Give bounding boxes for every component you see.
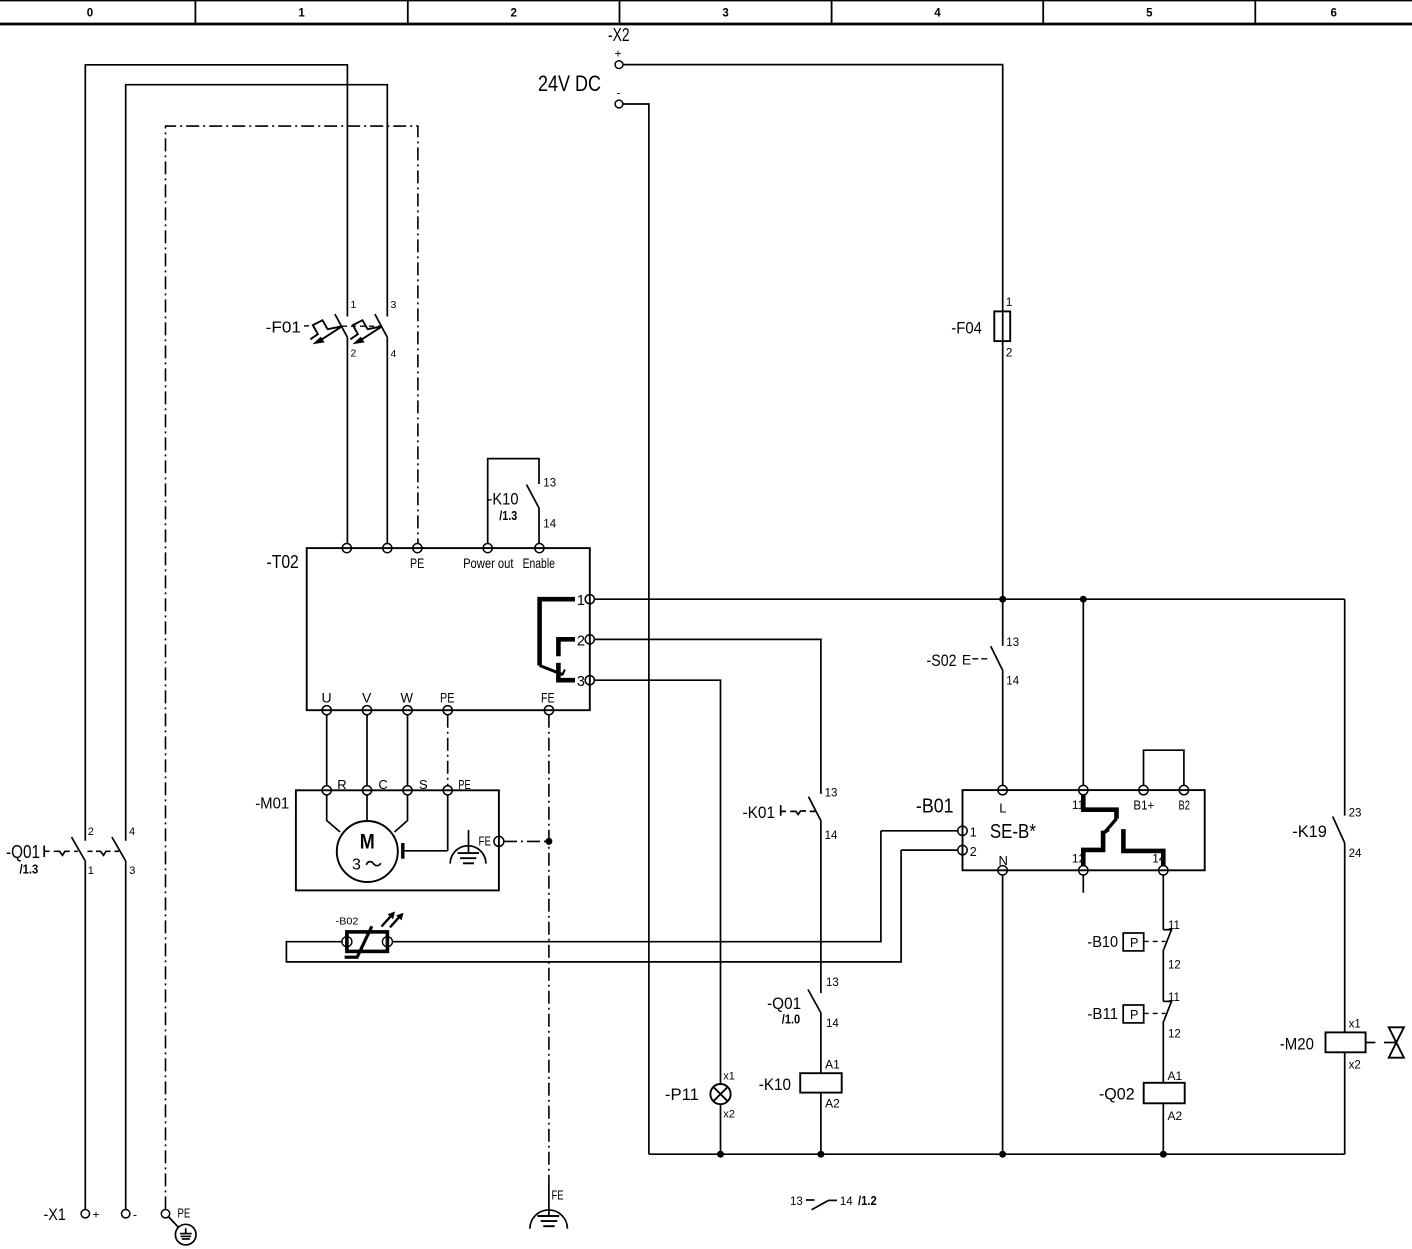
svg-text:11: 11 bbox=[1168, 920, 1180, 932]
wire Q01 aux to K10 coil bbox=[820, 1013, 822, 1073]
svg-text:6: 6 bbox=[1330, 8, 1336, 20]
svg-text:0: 0 bbox=[87, 8, 93, 20]
contact K19 23/24 bbox=[1292, 599, 1362, 860]
svg-text:4: 4 bbox=[391, 348, 397, 360]
svg-text:2: 2 bbox=[88, 826, 94, 838]
wire T02 pin1 to right rail bbox=[594, 598, 1344, 600]
wire M20 to bus bbox=[1344, 1052, 1346, 1154]
relay module B01 box bbox=[916, 785, 1205, 875]
svg-text:x2: x2 bbox=[723, 1108, 735, 1120]
wire L2 top bbox=[125, 861, 127, 1209]
svg-text:V: V bbox=[362, 689, 372, 705]
earth FE bottom bbox=[530, 1184, 568, 1229]
terminal -X2 - bbox=[615, 86, 623, 108]
svg-text:3: 3 bbox=[391, 299, 397, 311]
svg-text:Enable: Enable bbox=[523, 555, 555, 571]
breaker F01 pole 2 bbox=[350, 299, 396, 360]
svg-text:4: 4 bbox=[129, 826, 135, 838]
svg-text:-X2: -X2 bbox=[608, 25, 630, 45]
svg-text:B1+: B1+ bbox=[1133, 798, 1154, 813]
svg-text:2: 2 bbox=[1006, 346, 1013, 360]
B01 internal bold contact bbox=[1083, 795, 1163, 866]
svg-text:1: 1 bbox=[577, 593, 585, 609]
svg-text:-K01: -K01 bbox=[743, 803, 776, 822]
T02 internal bold jumper pin2/pin3 bbox=[558, 639, 575, 680]
svg-text:A1: A1 bbox=[825, 1058, 840, 1072]
svg-text:SE-B*: SE-B* bbox=[990, 821, 1036, 843]
pressure switch B11 bbox=[1087, 992, 1180, 1041]
svg-text:-M20: -M20 bbox=[1280, 1035, 1314, 1054]
motor M01 box bbox=[255, 777, 499, 890]
svg-text:FE: FE bbox=[552, 1187, 564, 1202]
svg-text:FE: FE bbox=[479, 834, 492, 849]
svg-text:14: 14 bbox=[825, 830, 838, 842]
junction dot FE bbox=[545, 838, 552, 845]
contact Q01 aux 13/14 bbox=[767, 977, 839, 1030]
coil K10 bbox=[759, 1058, 842, 1111]
fuse F04 bbox=[951, 295, 1013, 360]
svg-text:A2: A2 bbox=[1168, 1109, 1183, 1123]
svg-text:A1: A1 bbox=[1168, 1069, 1183, 1083]
svg-text:-T02: -T02 bbox=[267, 552, 299, 572]
svg-text:x1: x1 bbox=[1349, 1019, 1361, 1031]
svg-text:-Q02: -Q02 bbox=[1099, 1084, 1135, 1103]
svg-text:-P11: -P11 bbox=[665, 1085, 699, 1104]
wire B02 loop left bbox=[286, 855, 901, 962]
svg-text:C: C bbox=[378, 777, 387, 792]
svg-text:5: 5 bbox=[1146, 8, 1153, 20]
svg-text:+: + bbox=[93, 1208, 100, 1222]
wire Q02 to bus bbox=[1162, 1103, 1164, 1154]
svg-text:14: 14 bbox=[826, 1018, 839, 1030]
label -F01 bbox=[266, 319, 310, 336]
F01 mechanical link dashes bbox=[342, 325, 381, 327]
protective earth symbol PE bbox=[168, 1217, 196, 1245]
svg-text:B2: B2 bbox=[1179, 798, 1190, 813]
M01 FE pin bbox=[479, 834, 549, 849]
svg-text:12: 12 bbox=[1168, 959, 1181, 971]
breaker F01 pole 1 bbox=[310, 299, 356, 360]
wire F01.4 to T02 bbox=[386, 337, 388, 543]
svg-text:13: 13 bbox=[825, 788, 838, 800]
wire FE dash-dot T02 down bbox=[548, 715, 550, 1184]
wire to B01 pin 1 bbox=[881, 830, 958, 832]
motor M 3~ symbol bbox=[327, 795, 408, 882]
svg-text:24: 24 bbox=[1349, 848, 1362, 860]
coil Q02 bbox=[1099, 1069, 1185, 1123]
svg-text:N: N bbox=[999, 853, 1008, 868]
svg-text:-K19: -K19 bbox=[1292, 822, 1327, 841]
svg-text:2: 2 bbox=[351, 348, 357, 360]
wire to B01 pin 2 bbox=[901, 849, 958, 851]
wire B02 right to B01 pin1 bbox=[392, 835, 881, 941]
svg-text:1: 1 bbox=[88, 865, 94, 877]
svg-text:1: 1 bbox=[1006, 295, 1013, 309]
svg-text:W: W bbox=[401, 689, 414, 705]
ground earth symbol in M01 bbox=[450, 830, 486, 864]
svg-text:1: 1 bbox=[970, 826, 977, 840]
terminal -X2 + bbox=[608, 25, 630, 69]
wire K10 coil to bus bbox=[820, 1093, 822, 1155]
svg-text:24V DC: 24V DC bbox=[538, 71, 601, 96]
bottom bus wire bbox=[649, 1153, 1345, 1155]
svg-text:3: 3 bbox=[352, 857, 361, 874]
junction dot B01 N at bus bbox=[999, 1151, 1006, 1158]
contact K10 13/14 above T02 bbox=[488, 459, 557, 544]
svg-text:U: U bbox=[322, 689, 332, 705]
svg-text:13: 13 bbox=[543, 478, 556, 490]
wire V to motor bbox=[366, 715, 368, 786]
frequency converter T02 box bbox=[267, 544, 595, 715]
svg-text:PE: PE bbox=[440, 689, 455, 705]
breaker Q01 pole 1 bbox=[72, 826, 94, 877]
svg-text:14: 14 bbox=[840, 1196, 853, 1208]
svg-text:L: L bbox=[999, 801, 1006, 816]
wire B10 to B11 bbox=[1162, 950, 1164, 1002]
wire T02 pin3 to P11 bbox=[594, 680, 720, 1084]
svg-text:PE: PE bbox=[178, 1206, 191, 1221]
wire B01 14 down bbox=[1162, 875, 1164, 930]
svg-text:E: E bbox=[962, 651, 971, 667]
svg-text:/1.2: /1.2 bbox=[858, 1194, 877, 1208]
T02 internal bold jumper pin1 bbox=[540, 599, 575, 675]
svg-text:2: 2 bbox=[577, 634, 585, 650]
jumper B1+ to B2 bbox=[1144, 750, 1184, 785]
svg-text:12: 12 bbox=[1168, 1028, 1181, 1040]
svg-text:-B10: -B10 bbox=[1087, 934, 1118, 951]
B01 pin 12 stub bbox=[1082, 875, 1084, 893]
terminal strip X1 bbox=[44, 1205, 191, 1224]
wire T02 pin2 to K01 bbox=[594, 639, 821, 794]
svg-text:14: 14 bbox=[543, 519, 556, 531]
pressure switch B10 bbox=[1087, 920, 1180, 971]
svg-text:3: 3 bbox=[129, 865, 135, 877]
svg-text:-B11: -B11 bbox=[1087, 1006, 1118, 1023]
svg-text:-K10: -K10 bbox=[488, 490, 519, 509]
svg-text:-F01: -F01 bbox=[266, 319, 302, 336]
wire K01 to Q01 aux bbox=[820, 821, 822, 993]
svg-text:4: 4 bbox=[934, 8, 941, 20]
svg-text:-K10: -K10 bbox=[759, 1075, 791, 1094]
svg-text:1: 1 bbox=[298, 8, 305, 20]
svg-text:2: 2 bbox=[510, 8, 516, 20]
valve symbol bbox=[1366, 1027, 1404, 1057]
motor PE connection bar bbox=[403, 795, 448, 859]
svg-text:+: + bbox=[615, 47, 622, 61]
svg-text:13: 13 bbox=[826, 977, 839, 989]
valve coil M20 bbox=[1280, 1019, 1366, 1072]
contact cross-reference 13/14 1.2 bbox=[790, 1194, 877, 1210]
svg-text:/1.0: /1.0 bbox=[782, 1013, 800, 1027]
wire PE dash-dot T02 to M01 bbox=[447, 715, 449, 786]
svg-text:2: 2 bbox=[970, 845, 977, 859]
wire P11 to bus bbox=[720, 1104, 722, 1154]
wire B11 to Q02 coil bbox=[1162, 1021, 1164, 1083]
svg-text:14: 14 bbox=[1006, 675, 1019, 687]
svg-text:R: R bbox=[337, 777, 346, 792]
svg-text:-X1: -X1 bbox=[44, 1205, 66, 1224]
junction dot at B01-11 rail bbox=[1080, 596, 1087, 603]
svg-text:3: 3 bbox=[722, 8, 728, 20]
svg-text:1: 1 bbox=[351, 299, 357, 311]
wire F04 to junction bbox=[1002, 341, 1004, 646]
svg-text:FE: FE bbox=[541, 689, 555, 705]
switch S02 E bbox=[927, 637, 1020, 687]
svg-text:-B02: -B02 bbox=[336, 916, 359, 928]
wire corner B01 pin1 bbox=[880, 831, 882, 836]
thermistor B02 bbox=[336, 912, 404, 958]
svg-text:x1: x1 bbox=[723, 1071, 735, 1083]
junction dot K10 at bus bbox=[817, 1151, 824, 1158]
svg-text:P: P bbox=[1130, 936, 1138, 950]
wire K19 to M20 bbox=[1344, 843, 1346, 1032]
lamp P11 bbox=[665, 1071, 735, 1121]
junction dot P11 at bus bbox=[717, 1151, 724, 1158]
svg-text:M: M bbox=[360, 831, 375, 854]
breaker Q01 pole 2 bbox=[112, 826, 135, 877]
svg-text:-: - bbox=[133, 1208, 137, 1222]
svg-text:/1.3: /1.3 bbox=[499, 509, 517, 523]
wire S02 to B01 L bbox=[1002, 670, 1004, 785]
svg-text:-Q01: -Q01 bbox=[6, 842, 40, 862]
svg-text:Power out: Power out bbox=[463, 555, 513, 571]
svg-text:-S02: -S02 bbox=[927, 651, 957, 670]
wire L1 top bbox=[84, 861, 86, 1209]
junction dot Q02 at bus bbox=[1160, 1151, 1167, 1158]
svg-text:3: 3 bbox=[577, 674, 585, 690]
svg-text:PE: PE bbox=[458, 777, 471, 792]
junction dot at F04 rail bbox=[999, 596, 1006, 603]
wire F01.2 to T02 bbox=[346, 337, 348, 543]
wire X2- to bottom bus bbox=[623, 104, 649, 1154]
svg-text:-Q01: -Q01 bbox=[767, 994, 801, 1013]
svg-text:A2: A2 bbox=[825, 1096, 840, 1110]
enclosure dash-dot boundary bbox=[166, 126, 418, 1209]
svg-text:P: P bbox=[1130, 1008, 1138, 1022]
wire X2+ to F04 bbox=[623, 65, 1003, 308]
svg-text:13: 13 bbox=[1006, 637, 1019, 649]
svg-text:23: 23 bbox=[1349, 808, 1362, 820]
contact K01 13/14 bbox=[743, 788, 838, 843]
wire B01 N to bus bbox=[1002, 875, 1004, 1154]
svg-text:-M01: -M01 bbox=[255, 796, 289, 813]
svg-text:/1.3: /1.3 bbox=[20, 863, 39, 877]
svg-text:x2: x2 bbox=[1349, 1059, 1361, 1071]
svg-text:PE: PE bbox=[410, 555, 424, 571]
svg-text:S: S bbox=[419, 777, 428, 792]
wire junction to B01 pin 11 bbox=[1082, 599, 1084, 785]
svg-text:-B01: -B01 bbox=[916, 796, 954, 818]
wire corner B01 pin2 bbox=[900, 850, 902, 855]
svg-text:-F04: -F04 bbox=[951, 319, 982, 338]
Q01 actuator dashed link bbox=[44, 846, 119, 858]
svg-text:13: 13 bbox=[790, 1196, 803, 1208]
wire W to motor bbox=[407, 715, 409, 786]
svg-text:-: - bbox=[617, 86, 621, 100]
svg-text:11: 11 bbox=[1168, 992, 1180, 1004]
label -Q01 /1.3 bbox=[6, 842, 40, 877]
wire U to motor bbox=[326, 715, 328, 786]
